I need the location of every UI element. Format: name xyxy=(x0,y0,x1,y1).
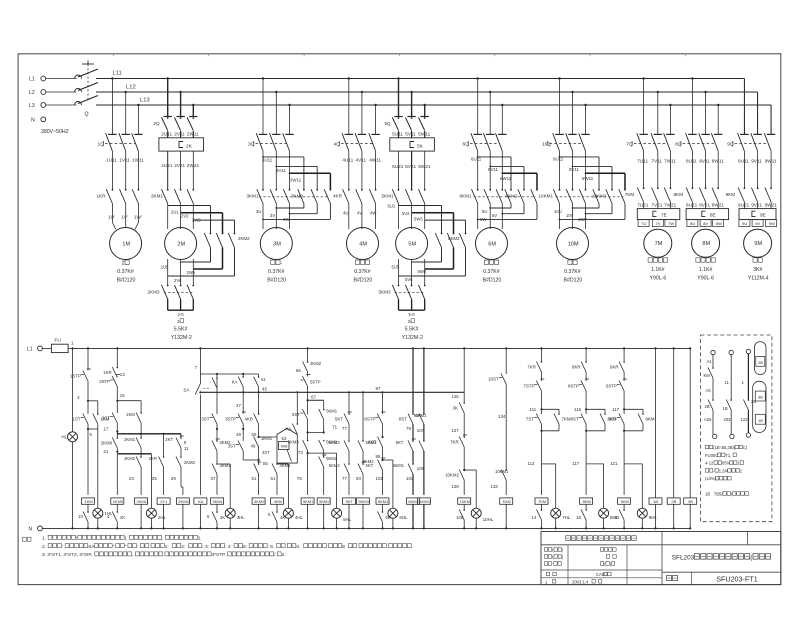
contactor 2KM main contacts xyxy=(167,117,169,119)
motor 9M xyxy=(744,229,772,257)
wire column 423.9 xyxy=(423,347,425,349)
coil 6KM1 xyxy=(376,498,389,504)
svg-text:9ST: 9ST xyxy=(609,417,617,422)
wire sensor column 2B xyxy=(673,347,675,349)
contact 3KM1a xyxy=(216,463,218,465)
svg-text:1: 1 xyxy=(71,341,74,346)
contactor 5KM3 contacts xyxy=(398,285,400,287)
contact 5KM2 interlock xyxy=(323,456,325,458)
svg-text:127: 127 xyxy=(451,428,459,433)
svg-text:5V21: 5V21 xyxy=(405,164,416,169)
detail contact 1B xyxy=(730,399,732,401)
svg-text:.: . xyxy=(412,545,413,550)
svg-text:B#D120: B#D120 xyxy=(483,278,502,284)
svg-text:5KM1: 5KM1 xyxy=(326,409,338,414)
svg-text:,: , xyxy=(132,553,133,558)
svg-text:3V: 3V xyxy=(270,213,275,218)
svg-text:117: 117 xyxy=(612,407,620,412)
svg-text:9HL: 9HL xyxy=(649,515,658,520)
contact 5KM1b xyxy=(323,440,325,442)
svg-text:4W11: 4W11 xyxy=(369,158,381,163)
wire 2KM1 to motor 2M xyxy=(167,204,169,230)
wire horizontal 453 xyxy=(308,452,337,454)
svg-text:1.2M: 1.2M xyxy=(719,468,729,473)
circuit breaker 7Q xyxy=(637,133,644,151)
svg-text:10V: 10V xyxy=(566,213,574,218)
pushbutton 7ST xyxy=(536,414,541,425)
svg-text:4V11: 4V11 xyxy=(356,158,367,163)
svg-text:: 6.: : 6. xyxy=(268,544,275,550)
svg-text:5-0: 5-0 xyxy=(409,312,416,317)
detail terminal A1 top xyxy=(711,350,715,354)
svg-text:9W11: 9W11 xyxy=(765,159,777,164)
svg-text:10Q: 10Q xyxy=(542,141,551,147)
svg-text:2HL: 2HL xyxy=(158,515,167,520)
lamp HL xyxy=(68,432,78,442)
motor 1M xyxy=(110,228,142,260)
svg-text:L13: L13 xyxy=(140,98,150,104)
svg-text:),: ), xyxy=(125,536,128,542)
svg-text:20: 20 xyxy=(614,515,619,520)
svg-text:113: 113 xyxy=(528,461,536,466)
svg-text:95: 95 xyxy=(376,454,381,459)
coil 2KM1 xyxy=(135,498,148,504)
thermal contact 1KR below coil xyxy=(87,511,89,513)
wire parallel 8KM contact xyxy=(586,408,605,410)
bus L11 xyxy=(96,78,744,80)
contact 8KR xyxy=(585,361,587,363)
svg-text:SFL203: SFL203 xyxy=(672,555,695,562)
svg-text:7KR: 7KR xyxy=(527,365,536,370)
motor 6M xyxy=(476,228,508,260)
wire column 541.5 xyxy=(540,347,542,349)
svg-text:4HL: 4HL xyxy=(295,515,304,520)
contact 8ST 6KM1 xyxy=(412,413,414,415)
wire drops branch 7Q xyxy=(643,79,645,135)
lamp 4HL xyxy=(283,508,293,518)
control bus N rail xyxy=(42,527,690,529)
contact 1KM parallel xyxy=(97,413,99,415)
svg-text:77: 77 xyxy=(342,476,347,481)
wire lamp 3HL branch xyxy=(217,463,230,465)
svg-text:6KM1: 6KM1 xyxy=(378,499,389,504)
svg-text:2U1: 2U1 xyxy=(171,210,179,215)
svg-text:1B: 1B xyxy=(653,499,658,504)
svg-text:5W3: 5W3 xyxy=(414,217,423,222)
wire column 413 xyxy=(412,347,414,349)
svg-text:5KT: 5KT xyxy=(346,499,354,504)
svg-text:B#D120: B#D120 xyxy=(354,278,373,284)
contact 5KM3b xyxy=(348,440,350,442)
svg-text:134: 134 xyxy=(498,414,506,419)
svg-text:8M: 8M xyxy=(702,241,710,247)
svg-text:55: 55 xyxy=(252,432,257,437)
svg-text:6KT: 6KT xyxy=(396,440,404,445)
svg-text:4KB: 4KB xyxy=(281,445,288,449)
svg-text:1B: 1B xyxy=(705,492,710,497)
wire jog 307 to 323 xyxy=(308,399,324,401)
wire 4KR to motor 4M xyxy=(348,204,350,230)
main switch Q xyxy=(46,78,77,80)
sensor box 3B xyxy=(684,498,697,504)
svg-text:3KM2: 3KM2 xyxy=(291,194,303,199)
wire 5KM1 to motor 5M xyxy=(398,204,400,230)
svg-text:-: - xyxy=(281,261,283,267)
svg-text:8KM: 8KM xyxy=(674,192,684,197)
svg-text:8V21: 8V21 xyxy=(699,203,710,208)
control terminal L1 xyxy=(38,346,43,351)
svg-text:": " xyxy=(125,544,127,550)
wire column 258.6 xyxy=(258,374,260,377)
contact 6K below xyxy=(382,511,384,513)
wire long horizontal node 45 xyxy=(200,391,464,393)
contact 2KM2b xyxy=(140,456,142,458)
svg-text:3B: 3B xyxy=(758,395,763,400)
detail capsule 2B xyxy=(754,342,766,375)
contact 1KA xyxy=(216,377,218,379)
wire lamp 4HL branch xyxy=(277,463,288,465)
svg-text:2W5: 2W5 xyxy=(187,270,196,275)
contact 7KR below xyxy=(541,509,543,511)
svg-text:1:: 1: xyxy=(165,544,169,550)
reversing crossover wires branch 10 xyxy=(559,156,561,158)
svg-text:2B: 2B xyxy=(758,360,763,365)
contact 7KM parallel xyxy=(558,413,560,415)
svg-text:7E: 7E xyxy=(661,213,667,219)
detail terminal right top xyxy=(746,349,750,353)
coil KA xyxy=(194,498,207,504)
detail contact 2B xyxy=(712,399,714,401)
detail terminal A25 bottom xyxy=(713,434,717,438)
svg-text:A3: A3 xyxy=(706,388,712,393)
svg-text:2KM2: 2KM2 xyxy=(184,460,196,465)
svg-text:8ST: 8ST xyxy=(399,417,407,422)
svg-text:HL: HL xyxy=(61,434,67,439)
svg-text:2B: 2B xyxy=(705,404,710,409)
svg-text:2KM2: 2KM2 xyxy=(124,456,136,461)
wire lamp 9HL xyxy=(624,463,642,465)
detail note text xyxy=(705,445,708,449)
detail capsule 3B 1B xyxy=(753,381,766,432)
lamp 10HL xyxy=(471,508,481,518)
pushbutton 9STP xyxy=(619,381,624,392)
svg-text:0.37K#: 0.37K# xyxy=(354,269,371,275)
coil 2Y1 xyxy=(157,498,170,504)
coil 2KM0 xyxy=(111,498,124,504)
wire column 117.3 xyxy=(116,347,118,349)
wire column 72.5 xyxy=(71,347,73,349)
coil 6KM3 xyxy=(417,498,430,504)
contact 2KM parallel xyxy=(140,412,142,414)
svg-text:1M: 1M xyxy=(122,241,130,247)
svg-text:79: 79 xyxy=(406,426,411,431)
svg-text:103: 103 xyxy=(406,476,414,481)
svg-text:49: 49 xyxy=(251,444,256,449)
svg-text:87: 87 xyxy=(376,386,381,391)
svg-text:L12: L12 xyxy=(126,85,136,91)
svg-text:2003.1.4: 2003.1.4 xyxy=(572,579,589,584)
svg-text:77: 77 xyxy=(342,426,347,431)
svg-text:17: 17 xyxy=(103,427,108,432)
coil 8KM xyxy=(580,498,593,504)
svg-text:6M: 6M xyxy=(488,241,496,247)
contact 2KM0a xyxy=(117,437,119,439)
svg-text:6HL: 6HL xyxy=(399,515,408,520)
svg-text:5KM2: 5KM2 xyxy=(319,499,330,504)
thermal relay 8E box xyxy=(686,209,729,220)
wire lamp 6HL branch xyxy=(383,459,393,461)
circuit breaker 1Q xyxy=(106,133,113,151)
svg-text:1.1K#: 1.1K# xyxy=(651,267,665,273)
bus L12 xyxy=(96,91,758,93)
svg-text:9U: 9U xyxy=(742,221,747,226)
wire lamp 10HL xyxy=(464,469,476,471)
title block left table xyxy=(567,545,569,585)
contact 9KR below xyxy=(623,509,625,511)
svg-text:4W: 4W xyxy=(370,211,376,216)
svg-text:108: 108 xyxy=(456,515,464,520)
detail contact KM xyxy=(712,367,714,369)
wire 4Q to 4KR xyxy=(348,152,350,190)
svg-text:5KM1: 5KM1 xyxy=(382,194,394,199)
selector SA xyxy=(195,384,200,395)
contactor 5KM1 contacts xyxy=(398,189,400,191)
svg-text:8KR: 8KR xyxy=(572,365,581,370)
contact 9KM parallel xyxy=(642,413,644,415)
svg-text:67: 67 xyxy=(311,395,316,400)
svg-text:9U21: 9U21 xyxy=(738,203,750,208)
relay box 4KB xyxy=(279,442,290,450)
svg-text:9E: 9E xyxy=(760,213,766,219)
bus corner turns to branch 9 xyxy=(743,79,745,135)
wire sensor column 3B xyxy=(689,347,691,349)
svg-text:SFU203-FT1: SFU203-FT1 xyxy=(716,574,758,583)
svg-text:9KM: 9KM xyxy=(726,192,736,197)
coil 5KT xyxy=(343,498,356,504)
detail left column wires xyxy=(712,355,714,368)
svg-text:2.: 2. xyxy=(282,552,286,558)
wire 1KR to motor 1M xyxy=(111,204,113,223)
selector house outline xyxy=(277,428,287,434)
svg-text:8U: 8U xyxy=(690,221,695,226)
svg-text:7U: 7U xyxy=(641,221,646,226)
wire column 277 xyxy=(259,436,277,438)
wire parallel 1KM contact xyxy=(88,400,98,402)
circuit breaker 8Q xyxy=(686,133,693,151)
contact 2KM2 top xyxy=(307,361,309,363)
svg-text:2-0: 2-0 xyxy=(178,312,185,317)
contact 10KM2 129 xyxy=(463,469,465,471)
wire lamp 2HL branch xyxy=(150,454,152,508)
svg-text:7W11: 7W11 xyxy=(664,159,676,164)
contactor 9KM contacts xyxy=(744,187,746,189)
wire column 323.7 xyxy=(323,400,325,409)
contactor 6KM2 contacts xyxy=(510,189,512,191)
coil KM2 xyxy=(500,498,513,504)
detail terminal mid bottom xyxy=(730,434,734,438)
svg-text:25: 25 xyxy=(152,476,157,481)
svg-text:9KR: 9KR xyxy=(610,365,619,370)
svg-text:5.5K#: 5.5K# xyxy=(405,327,419,333)
svg-text:10U: 10U xyxy=(554,209,562,214)
svg-text:7U11: 7U11 xyxy=(637,159,648,164)
svg-text:3M: 3M xyxy=(273,241,281,247)
lamp 6HL xyxy=(388,508,398,518)
svg-text:5U21: 5U21 xyxy=(392,164,404,169)
title block vertical divider main xyxy=(661,532,663,585)
svg-text:21: 21 xyxy=(103,449,108,454)
contact 2KT xyxy=(180,437,182,439)
thermal relay 7E box xyxy=(637,209,680,220)
contact 5KM1 parallel xyxy=(323,409,325,411)
wire to motor 6M xyxy=(477,204,479,230)
svg-text:8W: 8W xyxy=(716,221,722,226)
svg-text:9STP: 9STP xyxy=(606,384,617,389)
svg-text:7KM: 7KM xyxy=(625,192,635,197)
svg-text:3*STP,: 3*STP, xyxy=(212,552,227,558)
dashed detail box xyxy=(701,335,772,522)
coil 10KM xyxy=(458,498,471,504)
svg-text:13: 13 xyxy=(120,372,125,377)
thermal relay 5K box xyxy=(390,138,435,151)
svg-text:121: 121 xyxy=(610,461,618,466)
coil 1KM xyxy=(82,498,95,504)
coil 7KM xyxy=(535,498,548,504)
coil 5KM2 xyxy=(317,498,330,504)
title block divider top-right xyxy=(747,532,749,545)
svg-text:2KM3: 2KM3 xyxy=(148,289,160,294)
svg-text:8STP: 8STP xyxy=(364,417,375,422)
wire column 307.6 xyxy=(307,347,309,349)
svg-text:N: N xyxy=(31,117,35,123)
svg-text:107: 107 xyxy=(417,428,425,433)
wire column 297.3 xyxy=(296,392,298,424)
svg-text:75: 75 xyxy=(297,476,302,481)
wire 10Q down xyxy=(559,152,561,190)
svg-text:5KM2: 5KM2 xyxy=(326,456,338,461)
svg-text:5STP: 5STP xyxy=(310,380,321,385)
svg-text:3ST: 3ST xyxy=(201,417,209,422)
contact 2KM1a xyxy=(140,437,142,439)
svg-text:380V~50HZ: 380V~50HZ xyxy=(41,129,69,135)
svg-text:29: 29 xyxy=(171,476,176,481)
svg-text:8E: 8E xyxy=(710,213,716,219)
thermal relay 4KR xyxy=(348,189,350,191)
wire column 382.5 xyxy=(382,392,384,414)
svg-text:2Q: 2Q xyxy=(154,121,161,126)
detail terminal right bottom xyxy=(746,433,750,437)
svg-text:1KM: 1KM xyxy=(85,499,93,504)
svg-text:6KM2: 6KM2 xyxy=(408,499,419,504)
pushbutton 9ST xyxy=(619,414,624,425)
svg-text:5V2: 5V2 xyxy=(402,211,410,216)
contact 4KB xyxy=(258,413,260,415)
svg-text:71: 71 xyxy=(332,425,337,430)
contactor 3KM2 contacts xyxy=(303,189,305,191)
svg-text:9W11: 9W11 xyxy=(582,176,594,181)
svg-text:(±3%): (±3%) xyxy=(705,476,717,481)
contact 7KR xyxy=(541,361,543,363)
svg-text:2V21: 2V21 xyxy=(174,163,185,168)
contactor 5KM main contacts xyxy=(398,117,400,119)
svg-text:7B5(: 7B5( xyxy=(714,492,723,497)
svg-text:2K: 2K xyxy=(120,515,125,520)
svg-text:2V6: 2V6 xyxy=(174,278,182,283)
svg-text:2W21: 2W21 xyxy=(187,163,200,168)
pushbutton 8ST xyxy=(581,414,586,425)
svg-text:2V2: 2V2 xyxy=(181,214,189,219)
svg-text::: : xyxy=(62,545,63,550)
wire column 243.2 xyxy=(242,374,244,377)
svg-text:1ST: 1ST xyxy=(72,417,80,422)
svg-text:2M: 2M xyxy=(177,241,185,247)
svg-text:49: 49 xyxy=(236,432,241,437)
motor 5M xyxy=(396,228,428,260)
svg-text:10M: 10M xyxy=(568,241,579,247)
svg-text:55: 55 xyxy=(263,461,268,466)
pushbutton 7STP xyxy=(536,381,541,392)
wire column 141.1 xyxy=(140,401,142,413)
wire to motor 10M xyxy=(559,204,561,230)
svg-text:61: 61 xyxy=(271,476,276,481)
wire 9Q down xyxy=(743,152,745,188)
wire column 200.4 xyxy=(199,347,201,349)
svg-text:8U11: 8U11 xyxy=(686,159,697,164)
wire column 363 xyxy=(362,392,364,441)
lamp 8HL xyxy=(599,508,609,518)
svg-text:2KT: 2KT xyxy=(165,437,173,442)
motor 8M xyxy=(692,229,720,257)
wire motor 5M to 5KM3 xyxy=(398,259,400,286)
svg-text:2KM2: 2KM2 xyxy=(238,236,250,241)
svg-text:1W': 1W' xyxy=(134,215,142,220)
wire drops branch 1 xyxy=(111,79,113,135)
contactor 8KM contacts xyxy=(692,187,694,189)
contactor 7KM contacts xyxy=(643,187,645,189)
svg-text:8U21: 8U21 xyxy=(686,203,698,208)
lamp 1HL xyxy=(93,508,103,518)
svg-text:7M: 7M xyxy=(655,241,663,247)
sensor box 2B xyxy=(667,498,680,504)
pushbutton 8STP xyxy=(377,414,382,425)
svg-text:129: 129 xyxy=(451,484,459,489)
wire 8 down xyxy=(585,464,587,495)
svg-text:5U11: 5U11 xyxy=(392,132,403,137)
contact 2KM2 interlock xyxy=(180,456,182,458)
svg-text:SA: SA xyxy=(183,388,189,393)
svg-text:5HL: 5HL xyxy=(343,517,352,522)
svg-text:6V: 6V xyxy=(492,213,497,218)
svg-text:23: 23 xyxy=(129,476,134,481)
svg-text:(1B-3B,2B)(: (1B-3B,2B)( xyxy=(713,445,736,450)
svg-text:6KM2: 6KM2 xyxy=(363,459,375,464)
contact 3K 125 xyxy=(463,402,465,404)
svg-text:Y132M-2: Y132M-2 xyxy=(171,335,192,341)
wire sensor column 1B xyxy=(654,347,656,349)
svg-text:5U1: 5U1 xyxy=(388,204,396,209)
contact 6KM3b xyxy=(423,440,425,442)
svg-text:6ST: 6ST xyxy=(368,440,376,445)
contact 5KM0 xyxy=(362,440,364,442)
wire drops branch 6 xyxy=(477,79,479,135)
svg-text:8V11: 8V11 xyxy=(699,159,710,164)
wire 7Q down xyxy=(643,152,645,188)
svg-text:2ST: 2ST xyxy=(102,416,110,421)
svg-text:7KR: 7KR xyxy=(450,440,459,445)
svg-text:11: 11 xyxy=(725,380,730,385)
svg-text:14: 14 xyxy=(532,515,537,520)
wire column 163.6 xyxy=(163,433,165,435)
